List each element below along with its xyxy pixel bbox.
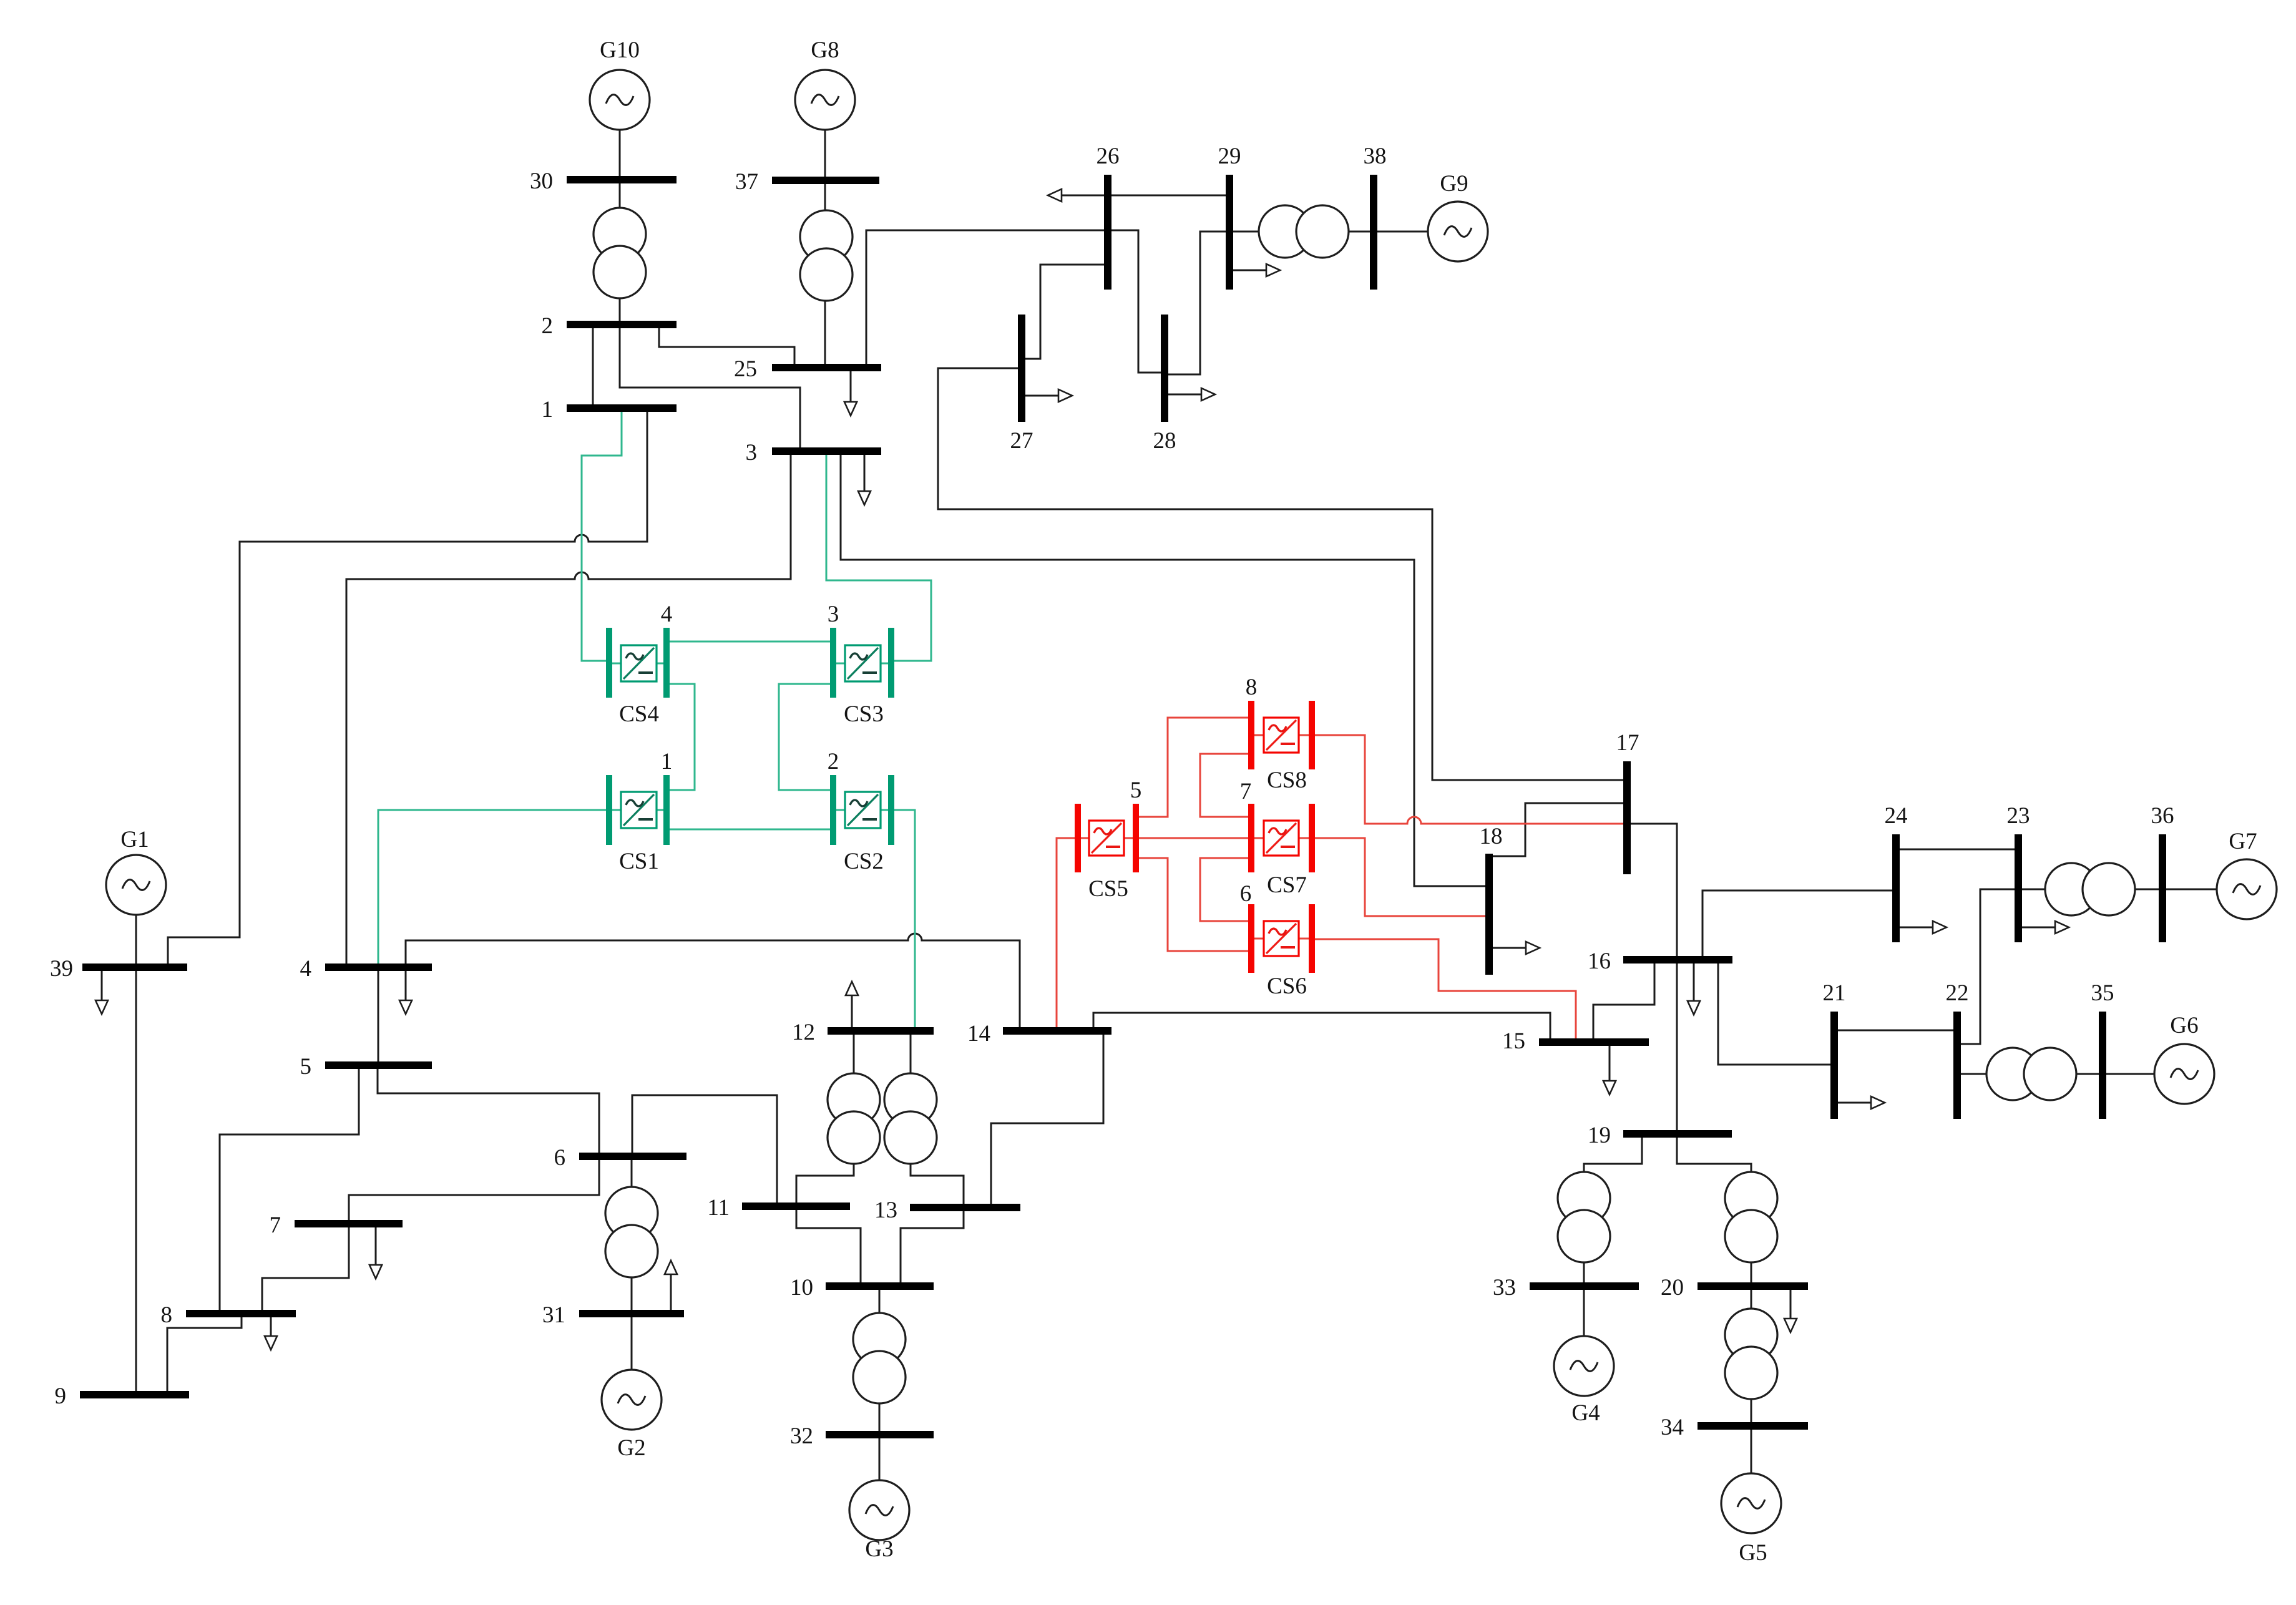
wire red CS7 to bus 18: [1314, 838, 1487, 916]
bus 13: [910, 1204, 1020, 1211]
svg-text:34: 34: [1661, 1415, 1684, 1440]
svg-text:7: 7: [270, 1212, 281, 1238]
bus 39: [82, 963, 187, 971]
wire load line bus 15: [1609, 1045, 1611, 1081]
wire load line bus 25: [850, 371, 852, 402]
svg-text:5: 5: [1130, 778, 1142, 803]
wire line 14-15: [1093, 1013, 1550, 1039]
bus 9: [80, 1391, 189, 1398]
wire load line bus 28: [1167, 394, 1202, 396]
wire load line bus 29: [1232, 270, 1267, 271]
transformer T29-38: [1259, 205, 1349, 258]
wire line 4-5: [378, 970, 379, 1062]
bus 1: [567, 404, 677, 412]
svg-text:32: 32: [790, 1423, 813, 1449]
svg-text:8: 8: [161, 1302, 173, 1328]
transformer T22-35: [1986, 1048, 2076, 1100]
wire red link CS8-CS7: [1200, 754, 1249, 817]
svg-text:17: 17: [1616, 730, 1639, 756]
wire red CS5 to bus 14: [1057, 838, 1075, 1028]
wire line 10-13: [901, 1211, 964, 1283]
generator G1: [106, 855, 166, 915]
wire line 25-26: [866, 230, 1105, 366]
wire bus 12 to transformer 12-11: [853, 1034, 855, 1074]
wire bus 6 to G2 through transformer and bus 31: [631, 1159, 633, 1370]
generation arrowhead bus 12 pointing up: [846, 982, 858, 995]
wire line 7-8: [262, 1227, 349, 1310]
bus 25: [772, 364, 881, 371]
converter station CS8: [1248, 701, 1315, 769]
load arrowhead bus 27 pointing right: [1058, 389, 1072, 402]
wire red link CS7-CS6: [1200, 858, 1249, 921]
bus 22: [1953, 1012, 1961, 1119]
generator G10: [590, 70, 650, 130]
wire red link CS5-CS6: [1138, 858, 1249, 951]
bus 14: [1003, 1027, 1111, 1035]
load arrowhead bus 18 pointing right: [1526, 942, 1540, 954]
generator G2: [602, 1370, 662, 1430]
transformer T30-2: [594, 208, 646, 298]
wire bus 29 to G9 through transformer and bus 38: [1232, 231, 1428, 233]
generator G9: [1428, 202, 1488, 261]
svg-text:15: 15: [1502, 1028, 1525, 1054]
transformer T19-20: [1725, 1172, 1777, 1262]
transformer T10-32: [853, 1313, 906, 1403]
bus 37: [772, 177, 879, 184]
svg-text:19: 19: [1588, 1123, 1611, 1148]
wire load line bus 18: [1492, 947, 1527, 949]
wire load line bus 8: [270, 1317, 272, 1337]
bus 7: [295, 1220, 403, 1227]
svg-text:2: 2: [542, 313, 554, 339]
bus 36: [2159, 834, 2166, 942]
svg-text:31: 31: [542, 1302, 565, 1328]
svg-text:CS6: CS6: [1267, 973, 1307, 999]
load arrowhead bus 16 pointing down: [1688, 1001, 1700, 1015]
wire line 5-8: [220, 1068, 359, 1310]
svg-text:CS4: CS4: [619, 701, 659, 727]
svg-text:3: 3: [828, 602, 839, 627]
wire line 17-27: [938, 368, 1624, 780]
wire red link CS5-CS8: [1138, 718, 1249, 817]
wire red CS8 to bus 17 with hop over line 3-18: [1314, 735, 1624, 824]
converter station CS4: [606, 628, 670, 698]
wire generation line bus 12: [851, 995, 853, 1028]
bus 24: [1892, 834, 1900, 942]
wire line 17-18: [1492, 803, 1624, 856]
bus 20: [1698, 1282, 1808, 1290]
generator G7: [2217, 859, 2277, 919]
generator G8: [795, 70, 855, 130]
converter station CS7: [1248, 804, 1315, 872]
wire line 13-14: [991, 1034, 1103, 1204]
svg-text:10: 10: [790, 1275, 813, 1300]
svg-text:14: 14: [967, 1021, 990, 1046]
svg-text:16: 16: [1588, 949, 1611, 974]
generator G4: [1554, 1336, 1614, 1396]
svg-text:20: 20: [1661, 1275, 1684, 1300]
wire G1 to bus 9 through bus 39: [135, 915, 137, 1392]
bus 10: [826, 1282, 934, 1290]
wire line 8-9: [167, 1317, 242, 1392]
bus 31: [579, 1310, 684, 1317]
svg-text:G4: G4: [1571, 1400, 1600, 1426]
svg-text:38: 38: [1364, 144, 1387, 169]
wire line 1-2: [592, 326, 594, 407]
svg-text:35: 35: [2091, 980, 2114, 1006]
transformer T12-11: [828, 1073, 880, 1164]
svg-text:CS7: CS7: [1267, 872, 1307, 898]
wire bus 23 to G7 through transformer and bus 36: [2021, 889, 2217, 890]
wire line 22-23: [1960, 889, 2015, 1044]
wire green bus 3 to CS3: [826, 454, 931, 661]
bus 38: [1370, 175, 1377, 290]
bus 32: [826, 1431, 934, 1438]
transformer T19-33: [1558, 1172, 1610, 1262]
svg-text:26: 26: [1097, 144, 1120, 169]
svg-text:CS1: CS1: [619, 849, 659, 874]
svg-text:13: 13: [874, 1198, 897, 1223]
wire line 26-28: [1110, 230, 1162, 373]
svg-text:36: 36: [2151, 803, 2174, 829]
bus 6: [579, 1153, 686, 1160]
wire green DC link CS4-CS3: [669, 641, 831, 643]
wire G8 to bus 25 through bus 37 and transformer: [824, 70, 826, 364]
svg-text:G2: G2: [617, 1435, 645, 1461]
bus 8: [186, 1310, 296, 1317]
wire line 3-18: [841, 454, 1487, 886]
wire line 5-6: [378, 1068, 599, 1153]
svg-text:CS2: CS2: [844, 849, 884, 874]
wire line 2-3: [620, 326, 800, 449]
wire line 16-21: [1718, 963, 1831, 1065]
converter station CS3: [830, 628, 894, 698]
transformer T12-13: [884, 1073, 937, 1164]
svg-text:24: 24: [1885, 803, 1908, 829]
wire line 15-16: [1593, 963, 1654, 1039]
svg-text:7: 7: [1240, 779, 1252, 804]
svg-text:4: 4: [661, 602, 673, 627]
generator G5: [1721, 1473, 1781, 1533]
svg-text:25: 25: [734, 356, 757, 382]
wire G10 to bus 2 through bus 30 and transformer: [619, 70, 621, 321]
wire bus 19 to G5 through transformers and buses 20 34: [1677, 1137, 1751, 1473]
bus 15: [1539, 1038, 1649, 1046]
wire load line bus 7: [375, 1227, 377, 1266]
bus 35: [2099, 1012, 2106, 1119]
wire bus 22 to G6 through transformer and bus 35: [1960, 1073, 2155, 1075]
wire line 28-29: [1167, 232, 1227, 374]
svg-text:G7: G7: [2229, 829, 2257, 854]
wire load line bus 24: [1899, 927, 1933, 929]
svg-text:29: 29: [1218, 144, 1241, 169]
wire load line bus 23: [2021, 927, 2056, 929]
converter station CS1: [606, 775, 670, 845]
svg-text:4: 4: [300, 956, 312, 982]
wire load line bus 39: [101, 970, 103, 1001]
bus 34: [1698, 1422, 1808, 1430]
wire red link CS5-CS7: [1138, 837, 1249, 839]
bus 5: [325, 1061, 432, 1069]
svg-text:12: 12: [792, 1020, 815, 1045]
transformer T20-34: [1725, 1309, 1777, 1399]
svg-text:8: 8: [1246, 675, 1258, 700]
wire green CS2 to bus 12: [894, 810, 915, 1028]
converter station CS5: [1075, 804, 1139, 872]
svg-text:1: 1: [542, 397, 554, 422]
wire load line bus 20: [1790, 1289, 1792, 1319]
svg-text:27: 27: [1010, 428, 1033, 454]
wire line 16-24: [1702, 890, 1893, 957]
generator G6: [2154, 1044, 2214, 1104]
svg-text:21: 21: [1823, 980, 1846, 1006]
bus 3: [772, 447, 881, 455]
bus 30: [567, 176, 677, 183]
wire transformer 12-11 to bus 11: [796, 1162, 854, 1203]
load arrowhead bus 20 pointing down: [1784, 1319, 1797, 1332]
wire load line bus 4: [405, 970, 407, 1001]
bus 21: [1830, 1012, 1838, 1119]
svg-text:3: 3: [746, 440, 758, 466]
converter station CS6: [1248, 904, 1315, 973]
generator G3: [849, 1480, 909, 1540]
bus 23: [2015, 834, 2022, 942]
wire bus 19 to G4 through transformer and bus 33: [1584, 1137, 1642, 1337]
load arrowhead bus 24 pointing right: [1933, 921, 1947, 934]
svg-text:37: 37: [735, 169, 758, 195]
wire generation line bus 31: [670, 1274, 672, 1310]
converter station CS2: [830, 775, 894, 845]
bus 18: [1485, 854, 1493, 975]
svg-text:2: 2: [828, 749, 839, 774]
svg-text:18: 18: [1480, 824, 1503, 849]
wire line 6-7: [349, 1159, 599, 1221]
svg-text:G8: G8: [811, 37, 839, 63]
svg-text:28: 28: [1153, 428, 1176, 454]
wire line 10-11: [796, 1209, 861, 1283]
load arrowhead bus 26 pointing left: [1048, 189, 1062, 202]
wire load line bus 16: [1693, 963, 1695, 1005]
load arrowhead bus 3 pointing down: [858, 491, 871, 505]
load arrowhead bus 23 pointing right: [2055, 921, 2069, 934]
svg-text:11: 11: [707, 1195, 730, 1221]
svg-text:G6: G6: [2170, 1013, 2198, 1038]
wire line 3-4 with hop over green link: [346, 454, 791, 964]
svg-text:39: 39: [50, 956, 73, 982]
wire line 2-25: [659, 326, 794, 366]
svg-text:G3: G3: [865, 1536, 893, 1562]
svg-text:CS3: CS3: [844, 701, 884, 727]
wire line 16-19: [1676, 963, 1678, 1131]
bus 2: [567, 321, 677, 328]
wire green DC link CS4-CS1: [669, 684, 695, 790]
transformer T6-31: [605, 1187, 658, 1277]
load arrowhead bus 8 pointing down: [265, 1336, 277, 1350]
svg-text:6: 6: [554, 1145, 566, 1171]
svg-text:22: 22: [1946, 980, 1969, 1006]
wire line 16-17: [1630, 824, 1677, 957]
generation arrowhead bus 31 pointing up: [665, 1261, 677, 1274]
wire green bus 4 to CS1: [378, 810, 607, 964]
load arrowhead bus 7 pointing down: [369, 1265, 382, 1279]
load arrowhead bus 25 pointing down: [844, 402, 857, 416]
svg-text:G5: G5: [1739, 1540, 1767, 1566]
wire line 23-24: [1899, 849, 2015, 851]
svg-text:CS5: CS5: [1088, 876, 1128, 902]
wire bus 12 to transformer 12-13: [910, 1034, 912, 1074]
wire load line bus 3: [864, 454, 866, 492]
load arrowhead bus 28 pointing right: [1201, 388, 1215, 401]
wire load line bus 21: [1837, 1102, 1872, 1104]
svg-text:6: 6: [1240, 881, 1252, 907]
bus 11: [742, 1203, 850, 1210]
load arrowhead bus 39 pointing down: [95, 1000, 108, 1014]
svg-text:30: 30: [530, 168, 553, 194]
transformer T37-25: [800, 210, 852, 301]
svg-text:9: 9: [55, 1383, 67, 1409]
bus 16: [1623, 956, 1732, 963]
bus 28: [1161, 315, 1168, 422]
wire load line bus 27: [1024, 395, 1059, 397]
wire line 4-14 with hop over green link: [406, 934, 1020, 1028]
svg-text:CS8: CS8: [1267, 768, 1307, 793]
wire line 21-22: [1837, 1030, 1954, 1032]
wire green DC link CS3-CS2: [779, 684, 831, 790]
wire red CS6 to bus 15: [1314, 939, 1576, 1039]
transformer T23-36: [2045, 863, 2135, 915]
bus 17: [1623, 761, 1631, 874]
wire line 1-39 with hop over green link: [168, 411, 647, 964]
wire transformer 12-13 to bus 13: [911, 1162, 964, 1204]
svg-text:G9: G9: [1440, 171, 1468, 197]
svg-text:23: 23: [2007, 803, 2030, 829]
svg-text:33: 33: [1493, 1275, 1516, 1300]
load arrowhead bus 29 pointing right: [1266, 264, 1280, 276]
wire bus 10 to G3 through transformer and bus 32: [879, 1289, 881, 1480]
bus 29: [1226, 175, 1233, 290]
svg-text:5: 5: [300, 1054, 312, 1080]
svg-text:1: 1: [661, 749, 673, 774]
wire line 6-11: [632, 1095, 777, 1203]
bus 19: [1623, 1130, 1732, 1138]
bus 4: [325, 963, 432, 971]
svg-text:G1: G1: [120, 827, 149, 852]
wire line 26-27: [1024, 265, 1105, 359]
wire green DC link CS1-CS2: [669, 829, 831, 831]
wire green bus 1 to CS4: [582, 411, 622, 661]
wire line 26-29 with bus 26 load line: [1061, 195, 1227, 197]
bus 27: [1018, 315, 1025, 422]
load arrowhead bus 4 pointing down: [399, 1000, 412, 1014]
svg-text:G10: G10: [600, 37, 640, 63]
bus 26: [1104, 175, 1111, 290]
bus 33: [1530, 1282, 1639, 1290]
load arrowhead bus 21 pointing right: [1871, 1096, 1885, 1109]
bus 12: [828, 1027, 934, 1035]
load arrowhead bus 15 pointing down: [1603, 1081, 1616, 1095]
